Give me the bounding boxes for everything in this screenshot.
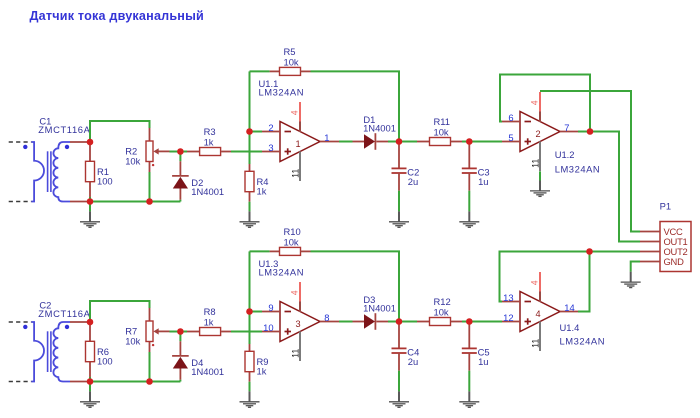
svg-text:10k: 10k	[434, 126, 449, 137]
pin OUT2 lead	[640, 251, 660, 253]
lead R4 bottom	[249, 192, 251, 202]
resistor R3	[200, 148, 221, 156]
lead C3 bottom	[468, 353, 470, 371]
svg-text:U1.4: U1.4	[560, 322, 580, 333]
junction transformer top	[87, 319, 94, 326]
polarity dot secondary	[65, 325, 69, 329]
lead R6 bottom	[89, 362, 91, 377]
lead R4 bottom	[249, 372, 251, 382]
wire OUT2 route	[590, 251, 641, 253]
lead D1 anode	[353, 141, 365, 143]
wire pin- horizontal	[250, 131, 263, 133]
pin VCC lead	[640, 231, 660, 233]
lead R11 left	[417, 321, 429, 323]
secondary winding	[53, 322, 70, 382]
lead R11 left	[417, 141, 429, 143]
lead R4 top	[249, 344, 251, 351]
pin 4 power stub	[299, 282, 301, 302]
svg-text:11: 11	[290, 169, 300, 178]
svg-text:10k: 10k	[284, 56, 299, 67]
lead R3 right	[221, 331, 231, 333]
wire C3 to buffer pin+	[469, 321, 502, 323]
svg-text:LM324AN: LM324AN	[555, 164, 601, 175]
pin 14 lead	[560, 311, 579, 313]
junction U1.2 output	[587, 128, 594, 135]
svg-text:11: 11	[530, 159, 540, 168]
pin OUT1 lead	[640, 241, 660, 243]
wire feedback rail left	[250, 70, 270, 72]
resistor R12	[430, 318, 451, 326]
wire output	[339, 141, 353, 143]
wire GND to ground	[631, 262, 640, 272]
junction wiper node	[177, 328, 184, 335]
wire feedback rail right	[311, 251, 400, 321]
op-amp U1.4	[520, 292, 560, 332]
connector P1	[660, 222, 691, 272]
svg-text:1u: 1u	[478, 176, 488, 187]
capacitor C5	[462, 347, 477, 349]
secondary leads	[70, 141, 88, 143]
svg-text:100: 100	[97, 175, 113, 186]
pin 1 lead	[320, 141, 339, 143]
junction trimmer bottom	[146, 198, 153, 205]
pin 11 stub	[539, 322, 541, 352]
junction rectifier node	[396, 318, 403, 325]
svg-text:1N4001: 1N4001	[191, 366, 224, 377]
wire pin- horizontal	[250, 311, 263, 313]
svg-text:LM324AN: LM324AN	[560, 336, 606, 347]
svg-text:LM324AN: LM324AN	[259, 87, 305, 98]
pin 6 lead	[502, 121, 520, 123]
dashed stub top	[9, 321, 32, 323]
lead R3 right	[221, 151, 231, 153]
svg-text:5: 5	[508, 132, 513, 143]
svg-text:11: 11	[530, 339, 540, 348]
svg-text:9: 9	[268, 302, 273, 313]
pin 4 power stub	[539, 92, 541, 112]
op-amp U1.2	[520, 112, 560, 152]
lead D4 bottom	[179, 369, 181, 380]
ground P1 GND	[621, 272, 641, 288]
pin 3 lead	[262, 151, 280, 153]
secondary leads	[70, 321, 88, 323]
svg-text:10k: 10k	[284, 236, 299, 247]
core	[47, 151, 49, 192]
svg-text:10: 10	[263, 322, 273, 333]
pin GND lead	[640, 261, 660, 263]
lead R5 left	[270, 250, 280, 252]
wire C3 to buffer pin+	[469, 141, 502, 143]
wire OUT1 route	[590, 132, 640, 242]
resistor R11	[430, 138, 451, 146]
lead R11 right	[451, 321, 462, 323]
lead C2 top	[398, 322, 400, 349]
lead R5 right	[300, 250, 310, 252]
svg-text:1: 1	[324, 132, 329, 143]
junction transformer bottom	[87, 378, 94, 385]
wire top-left rail	[90, 121, 150, 142]
svg-text:R11: R11	[434, 116, 451, 127]
resistor R9	[245, 351, 254, 371]
svg-text:R8: R8	[204, 306, 216, 317]
svg-text:1u: 1u	[478, 356, 488, 367]
polarity dot primary	[23, 325, 27, 329]
trimmer R7	[146, 321, 153, 342]
svg-text:2: 2	[536, 129, 541, 139]
wire junction to R3	[180, 151, 187, 153]
svg-text:ZMCT116A: ZMCT116A	[38, 124, 90, 135]
svg-text:10k: 10k	[434, 306, 449, 317]
lead C3 top	[468, 322, 470, 349]
ground ground under R6	[80, 391, 100, 407]
svg-text:2u: 2u	[408, 176, 418, 187]
lead C2 bottom	[398, 173, 400, 191]
core	[47, 331, 49, 372]
svg-text:6: 6	[508, 112, 513, 123]
wire VCC route	[540, 91, 640, 232]
svg-text:R10: R10	[284, 226, 301, 237]
wire R3 to pin+	[231, 151, 262, 153]
primary winding	[31, 142, 44, 202]
lead R3 left	[187, 151, 199, 153]
ground ground under R1	[80, 211, 100, 227]
wire U1.2 feedback loop	[500, 75, 590, 132]
pin 11 stub	[299, 332, 301, 362]
ground U1.2 pin11	[530, 181, 550, 197]
svg-text:10k: 10k	[125, 155, 140, 166]
svg-text:ZMCT116A: ZMCT116A	[38, 308, 90, 319]
wire junction to R3	[180, 331, 187, 333]
svg-text:1k: 1k	[204, 136, 214, 147]
svg-text:1k: 1k	[257, 365, 267, 376]
svg-text:U1.2: U1.2	[555, 149, 575, 160]
resistor R8	[200, 328, 221, 336]
op-amp U1.3	[280, 302, 320, 342]
ground ground under C3	[459, 211, 479, 227]
svg-text:8: 8	[324, 312, 329, 323]
lead C3 bottom	[468, 173, 470, 191]
wire wiper to junction	[169, 331, 180, 333]
svg-text:4: 4	[290, 290, 300, 295]
svg-text:3: 3	[296, 319, 301, 329]
lead D1 cathode	[376, 141, 388, 143]
capacitor C4	[392, 347, 407, 349]
junction wiper node	[177, 148, 184, 155]
wire output U1.4	[578, 252, 590, 312]
junction feedback/pin-	[246, 128, 253, 135]
svg-text:R3: R3	[204, 126, 216, 137]
lead D1 cathode	[376, 321, 388, 323]
wire junction to R11	[399, 141, 417, 143]
lead R5 left	[270, 70, 280, 72]
primary winding	[31, 322, 44, 382]
lead D2 bottom	[179, 189, 181, 200]
pin 4 power stub	[299, 102, 301, 122]
wire feedback rail right	[311, 71, 400, 141]
dashed stub bottom	[9, 381, 32, 383]
svg-text:1N4001: 1N4001	[363, 303, 396, 314]
junction U1.4 output / OUT2	[586, 248, 593, 255]
svg-text:100: 100	[97, 355, 113, 366]
wire output U1.2	[578, 131, 590, 133]
junction filter node	[466, 138, 473, 145]
svg-text:1N4001: 1N4001	[363, 123, 396, 134]
wire R11 to C3	[462, 141, 469, 143]
lead R4 top	[249, 164, 251, 171]
svg-text:4: 4	[530, 280, 540, 285]
wire D1 to junction	[388, 141, 399, 143]
junction feedback/pin-	[246, 308, 253, 315]
resistor R1	[86, 161, 95, 181]
lead R2 top	[149, 128, 151, 141]
svg-text:4: 4	[536, 309, 541, 319]
svg-text:GND: GND	[664, 256, 685, 267]
diode D3	[364, 314, 375, 328]
wire U1.4 feedback loop	[500, 252, 590, 302]
wire D1 to junction	[388, 321, 399, 323]
lead R7 top	[149, 308, 151, 321]
pin 7 lead	[560, 131, 579, 133]
ground ground under C2	[389, 211, 409, 227]
wire R11 to C3	[462, 321, 469, 323]
trimmer R2	[146, 141, 153, 162]
lead R7 bottom	[149, 342, 151, 353]
pin 13 lead	[502, 301, 520, 303]
svg-text:1k: 1k	[204, 316, 214, 327]
svg-text:2: 2	[268, 122, 273, 133]
pin 12 lead	[502, 321, 520, 323]
wire/lead R6 top	[89, 322, 91, 341]
wire feedback vertical	[249, 71, 251, 164]
wire wiper to junction	[169, 151, 180, 153]
wire feedback rail left	[250, 250, 270, 252]
pin 10 lead	[262, 331, 280, 333]
svg-text:P1: P1	[660, 201, 671, 212]
svg-text:3: 3	[268, 142, 273, 153]
svg-text:10k: 10k	[125, 335, 140, 346]
wire to ground	[89, 382, 91, 392]
op-amp U1.1	[280, 122, 320, 162]
diode D4	[172, 355, 189, 357]
svg-text:1N4001: 1N4001	[191, 186, 224, 197]
pin 11 stub	[299, 152, 301, 182]
svg-text:4: 4	[290, 110, 300, 115]
svg-text:LM324AN: LM324AN	[259, 267, 305, 278]
lead D2	[179, 161, 181, 176]
diode D1	[364, 134, 375, 148]
wire top-left rail	[90, 301, 150, 322]
secondary winding	[53, 142, 70, 202]
capacitor C3	[462, 167, 477, 169]
capacitor C2	[392, 167, 407, 169]
lead R1 bottom	[89, 182, 91, 197]
lead C2 top	[398, 142, 400, 169]
wire D2 top	[179, 152, 181, 162]
svg-text:12: 12	[503, 312, 513, 323]
pin 11 stub	[539, 142, 541, 172]
junction transformer top	[87, 139, 94, 146]
resistor R6	[86, 341, 95, 361]
pin 4 power stub	[539, 272, 541, 292]
lead C2 bottom	[398, 353, 400, 371]
ground ground under R9	[240, 391, 260, 407]
diode D2	[172, 175, 189, 177]
svg-text:7: 7	[564, 122, 569, 133]
resistor R4	[245, 171, 254, 191]
pin 8 lead	[320, 321, 339, 323]
ground ground under R4	[240, 211, 260, 227]
lead R3 left	[187, 331, 199, 333]
ground ground under C4	[389, 391, 409, 407]
ground ground under C5	[459, 391, 479, 407]
polarity dot secondary	[65, 145, 69, 149]
wire bottom rail	[88, 201, 180, 203]
junction filter node	[466, 318, 473, 325]
svg-text:11: 11	[290, 349, 300, 358]
resistor R5	[280, 67, 301, 75]
wire D4 top	[179, 332, 181, 342]
ground stem U1.2 pin11	[539, 171, 541, 180]
svg-text:4: 4	[530, 100, 540, 105]
dashed stub bottom	[9, 201, 32, 203]
wire R3 to pin+	[231, 331, 262, 333]
wire output	[339, 321, 353, 323]
resistor R10	[280, 247, 301, 255]
lead R11 right	[451, 141, 462, 143]
svg-text:14: 14	[564, 302, 574, 313]
wire junction to R11	[399, 321, 417, 323]
lead R2 bottom	[149, 162, 151, 173]
wire bottom rail	[88, 381, 180, 383]
lead C3 top	[468, 142, 470, 169]
lead D4	[179, 341, 181, 356]
wire to ground	[89, 202, 91, 212]
lead R5 right	[300, 70, 310, 72]
pin 2 lead	[262, 131, 280, 133]
svg-text:1k: 1k	[257, 185, 267, 196]
dashed stub top	[9, 141, 32, 143]
svg-text:R12: R12	[434, 296, 451, 307]
svg-text:1: 1	[296, 139, 301, 149]
junction rectifier node	[396, 138, 403, 145]
svg-text:Датчик тока двуканальный: Датчик тока двуканальный	[30, 9, 205, 23]
wire/lead R1 top	[89, 142, 91, 161]
junction trimmer bottom	[146, 378, 153, 385]
pin 9 lead	[262, 311, 280, 313]
svg-text:2u: 2u	[408, 356, 418, 367]
wire feedback vertical	[249, 251, 251, 344]
polarity dot primary	[23, 145, 27, 149]
lead D1 anode	[353, 321, 365, 323]
svg-text:R5: R5	[284, 46, 296, 57]
pin 5 lead	[502, 141, 520, 143]
svg-text:13: 13	[503, 292, 513, 303]
junction transformer bottom	[87, 198, 94, 205]
